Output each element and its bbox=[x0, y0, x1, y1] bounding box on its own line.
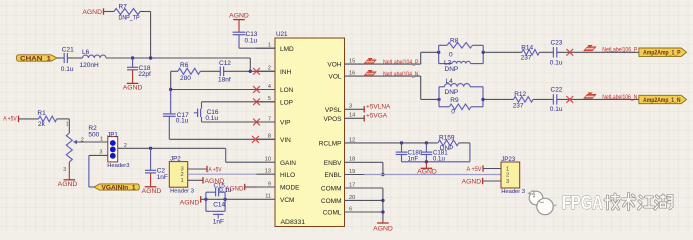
svg-text:NetLabel106_P: NetLabel106_P bbox=[602, 47, 637, 53]
pin 18 ENBV bbox=[324, 157, 364, 167]
wire JP2 pin1 bbox=[188, 179, 203, 181]
svg-text:0: 0 bbox=[449, 52, 453, 59]
pin 8 VIN bbox=[257, 134, 292, 144]
wire AGND to R7 bbox=[104, 11, 115, 13]
power A +5V JP23 bbox=[467, 165, 484, 173]
wire R1 to pot bbox=[57, 118, 70, 120]
pin 15 VOH bbox=[327, 59, 364, 69]
power A +5V JP2 bbox=[207, 166, 222, 174]
svg-text:R14: R14 bbox=[521, 44, 533, 51]
wire ENBL to JP23 bbox=[364, 174, 501, 176]
svg-text:500: 500 bbox=[88, 131, 99, 138]
capacitor C16 0.1u with loop bbox=[194, 102, 219, 122]
svg-text:3: 3 bbox=[349, 104, 352, 110]
svg-text:1: 1 bbox=[100, 137, 103, 143]
resistor R9 0 bbox=[449, 97, 471, 116]
node junction C15 left bbox=[204, 198, 207, 201]
svg-text:AGND: AGND bbox=[462, 179, 482, 186]
node junction C18 bbox=[131, 56, 134, 59]
wire C17 to VIN pin 8 bbox=[168, 116, 170, 139]
node junction C15 right bbox=[223, 198, 226, 201]
capacitor C22 0.1u bbox=[550, 87, 563, 114]
wire R159 loop bbox=[459, 142, 470, 144]
svg-text:C23: C23 bbox=[551, 40, 563, 47]
wire to R1 bbox=[19, 118, 39, 120]
svg-text:U21: U21 bbox=[276, 31, 288, 38]
no-ERC x pin5 bbox=[253, 98, 260, 105]
power AGND VCM bbox=[180, 196, 201, 206]
node junction COMM20 bbox=[381, 199, 384, 202]
wire LOP row pin 5 bbox=[202, 101, 276, 103]
svg-text:1: 1 bbox=[506, 166, 509, 172]
capacitor C12 18nf bbox=[218, 60, 231, 84]
wire to R14 bbox=[483, 51, 522, 53]
svg-text:R1: R1 bbox=[37, 110, 46, 117]
no-ERC x pin2 bbox=[253, 68, 260, 75]
wire COMM pin20 bbox=[364, 199, 383, 201]
svg-text:18nf: 18nf bbox=[218, 76, 231, 83]
svg-text:2: 2 bbox=[81, 137, 84, 143]
svg-text:0: 0 bbox=[451, 108, 455, 115]
no-ERC x N bbox=[566, 96, 573, 103]
wire wiper to JP1 bbox=[76, 141, 108, 143]
node junction R7 bbox=[149, 56, 152, 59]
svg-text:+5VGA: +5VGA bbox=[366, 113, 388, 120]
capacitor C181 0.1u bbox=[421, 143, 449, 162]
svg-text:1: 1 bbox=[268, 43, 271, 49]
wire C13 to LMD pin 1 bbox=[238, 35, 240, 49]
connector JP2 Header 3 bbox=[169, 155, 194, 194]
pin 17 COMM bbox=[321, 182, 364, 192]
pin 14 VPOS bbox=[323, 113, 364, 123]
svg-text:VIP: VIP bbox=[280, 120, 290, 127]
watermark logo bbox=[529, 191, 557, 215]
inductor L6 120nH bbox=[80, 49, 107, 69]
diff pair directive VOL bbox=[364, 72, 376, 76]
svg-text:0.1u: 0.1u bbox=[245, 37, 258, 44]
pin 16 VOL bbox=[328, 71, 364, 81]
connector JP23 Header 3 bbox=[501, 156, 525, 195]
port CHAN_1 bbox=[17, 55, 58, 63]
wire parallel block N frame bbox=[438, 87, 440, 107]
diff pair directive P bbox=[584, 47, 596, 51]
svg-text:4: 4 bbox=[268, 84, 271, 90]
capacitor C14 1nF bbox=[206, 199, 226, 225]
port Amp2Amp_1_P bbox=[639, 48, 687, 57]
wire parallel block P frame bbox=[438, 45, 440, 63]
svg-text:17: 17 bbox=[349, 182, 355, 188]
svg-text:AGND: AGND bbox=[58, 181, 78, 188]
wire R6 to C12 bbox=[200, 70, 220, 72]
svg-text:8: 8 bbox=[268, 134, 271, 140]
capacitor C23 0.1u bbox=[550, 40, 563, 67]
svg-text:1nF: 1nF bbox=[408, 155, 419, 162]
svg-text:+5VLNA: +5VLNA bbox=[366, 103, 391, 110]
wire C21 to L6 bbox=[67, 57, 82, 59]
pin 10 GAIN bbox=[257, 157, 297, 167]
svg-text:3: 3 bbox=[506, 179, 509, 185]
svg-text:C14: C14 bbox=[213, 201, 225, 208]
wire MODE bbox=[245, 186, 257, 188]
resistor R14 237 bbox=[521, 44, 540, 61]
wire JP2 pin2 HILO bbox=[188, 173, 257, 175]
svg-text:LMD: LMD bbox=[280, 46, 294, 53]
resistor R159 DNP bbox=[438, 134, 459, 152]
capacitor C180 1nF bbox=[396, 143, 423, 162]
svg-text:JP23: JP23 bbox=[501, 156, 516, 163]
svg-text:MODE: MODE bbox=[280, 185, 300, 192]
svg-text:LOP: LOP bbox=[280, 99, 293, 106]
pin 5 LOP bbox=[257, 96, 294, 106]
svg-text:2: 2 bbox=[268, 66, 271, 72]
svg-text:6: 6 bbox=[349, 206, 352, 212]
svg-text:A +5V: A +5V bbox=[209, 166, 222, 173]
power +5VGA bbox=[364, 113, 388, 122]
svg-text:DNP: DNP bbox=[445, 66, 459, 73]
svg-text:AGND: AGND bbox=[142, 188, 162, 195]
svg-text:Header3: Header3 bbox=[107, 163, 129, 169]
svg-text:A +5V: A +5V bbox=[467, 166, 483, 173]
resistor R8 0 bbox=[447, 37, 473, 58]
svg-text:AGND: AGND bbox=[180, 199, 200, 206]
wire RCLMP bbox=[364, 142, 438, 144]
svg-text:1: 1 bbox=[66, 121, 69, 127]
ground AGND under C18 bbox=[123, 70, 143, 92]
svg-text:VOH: VOH bbox=[327, 62, 341, 69]
node junction C181 bbox=[425, 141, 428, 144]
svg-text:JP1: JP1 bbox=[107, 131, 118, 138]
power +5VLNA bbox=[364, 103, 391, 112]
svg-text:12: 12 bbox=[349, 137, 355, 143]
svg-text:AD8331: AD8331 bbox=[281, 219, 306, 226]
power AGND MODE bbox=[225, 184, 244, 193]
node junction C2 bbox=[149, 147, 152, 150]
svg-text:NetLabel104_N: NetLabel104_N bbox=[383, 72, 419, 78]
svg-text:R159: R159 bbox=[439, 134, 455, 141]
svg-text:2: 2 bbox=[506, 173, 509, 179]
svg-text:280: 280 bbox=[180, 75, 191, 82]
svg-text:16: 16 bbox=[349, 71, 355, 77]
svg-text:DNP_TP: DNP_TP bbox=[119, 15, 140, 22]
svg-text:VIN: VIN bbox=[280, 137, 291, 144]
svg-text:0.1u: 0.1u bbox=[433, 155, 446, 162]
node junction INH bbox=[249, 70, 252, 73]
wire C12 to INH node bbox=[224, 70, 251, 72]
svg-text:0.1u: 0.1u bbox=[205, 115, 218, 122]
pin 13 HILO bbox=[257, 169, 296, 179]
svg-text:13: 13 bbox=[265, 169, 271, 175]
svg-text:1nF: 1nF bbox=[213, 219, 224, 226]
svg-text:FPGA: FPGA bbox=[562, 193, 603, 214]
wire main horizontal bbox=[106, 57, 250, 59]
svg-text:R12: R12 bbox=[514, 91, 526, 98]
resistor R6 280 bbox=[178, 62, 201, 82]
capacitor C21 0.1u bbox=[61, 46, 74, 73]
svg-text:VGAINIn_1: VGAINIn_1 bbox=[102, 185, 137, 191]
diff pair directive N bbox=[584, 94, 596, 98]
svg-text:237: 237 bbox=[521, 55, 532, 62]
resistor R1 2k bbox=[37, 110, 56, 128]
ground AGND comm bbox=[373, 222, 393, 233]
wire JP23 pin1 bbox=[483, 168, 501, 170]
svg-text:AGND: AGND bbox=[82, 9, 102, 16]
wire port to C21 bbox=[57, 57, 64, 59]
no-ERC x pin7 bbox=[253, 119, 260, 126]
potentiometer R2 500 bbox=[63, 121, 99, 173]
svg-text:ENBV: ENBV bbox=[324, 160, 342, 167]
wire R14 to C23 bbox=[539, 51, 553, 53]
wire R6 corner bbox=[171, 70, 178, 72]
wire COML pin6 bbox=[364, 211, 383, 213]
wire INH node to pin 2 bbox=[250, 70, 275, 72]
pin 7 VIP bbox=[257, 116, 291, 126]
svg-text:NetLabel104_P: NetLabel104_P bbox=[383, 60, 419, 66]
capacitor C13 0.1u bbox=[233, 31, 258, 44]
svg-text:DNP: DNP bbox=[445, 89, 459, 96]
svg-text:ENBL: ENBL bbox=[325, 172, 342, 179]
svg-text:L6: L6 bbox=[82, 49, 90, 56]
svg-text:CHAN_1: CHAN_1 bbox=[20, 55, 51, 62]
pin 1 LMD bbox=[257, 43, 295, 53]
wire COMM bus bbox=[364, 187, 383, 189]
ground AGND rail bbox=[417, 162, 437, 176]
svg-text:C21: C21 bbox=[62, 46, 74, 53]
svg-text:3: 3 bbox=[63, 167, 66, 173]
svg-text:R7: R7 bbox=[119, 4, 128, 11]
svg-text:NetLabel106_N: NetLabel106_N bbox=[602, 95, 637, 101]
svg-text:11: 11 bbox=[265, 194, 271, 200]
wire R7 to node bbox=[140, 11, 151, 13]
svg-text:5: 5 bbox=[268, 96, 271, 102]
svg-text:237: 237 bbox=[513, 103, 524, 110]
node junction N right bbox=[481, 98, 484, 101]
wire R12 to C22 bbox=[533, 98, 553, 100]
power A +5V left bbox=[3, 116, 18, 123]
diff pair directive VOH bbox=[364, 60, 376, 64]
no-ERC x pin4 bbox=[253, 86, 260, 93]
wire VOH to network bbox=[364, 63, 421, 65]
resistor R12 237 bbox=[513, 91, 533, 110]
pin 2 INH bbox=[257, 66, 292, 76]
pin 9 MODE bbox=[257, 181, 301, 191]
svg-text:JP2: JP2 bbox=[170, 155, 181, 162]
svg-text:20: 20 bbox=[349, 195, 355, 201]
svg-text:COMM: COMM bbox=[321, 186, 342, 193]
svg-text:R9: R9 bbox=[450, 97, 459, 104]
svg-text:22pf: 22pf bbox=[138, 71, 151, 78]
svg-text:VPSL: VPSL bbox=[325, 107, 342, 114]
wire JP2 pin3 bbox=[188, 168, 207, 170]
pin 20 COMM bbox=[321, 195, 364, 205]
node junction P right bbox=[482, 51, 485, 54]
node junction P left bbox=[437, 51, 440, 54]
connector JP1 Header3 bbox=[107, 131, 129, 169]
svg-text:14: 14 bbox=[349, 113, 355, 119]
node junction C180 bbox=[400, 141, 403, 144]
wire VCM rail bbox=[201, 198, 257, 200]
pin 11 VCM bbox=[257, 194, 295, 204]
watermark text bbox=[562, 193, 672, 214]
svg-text:INH: INH bbox=[280, 69, 292, 76]
svg-text:1: 1 bbox=[181, 178, 184, 184]
node junction COML bbox=[381, 210, 384, 213]
node junction rail bbox=[425, 160, 428, 163]
svg-text:HILO: HILO bbox=[280, 172, 295, 179]
svg-text:R6: R6 bbox=[180, 62, 189, 69]
node junction LON bbox=[169, 88, 172, 91]
wire C22 to port bbox=[557, 98, 639, 100]
svg-text:0.1u: 0.1u bbox=[176, 118, 189, 125]
capacitor C18 22pf bbox=[127, 58, 151, 78]
inductor L4 DNP bbox=[445, 78, 471, 96]
svg-text:2k: 2k bbox=[38, 121, 46, 128]
svg-text:COML: COML bbox=[323, 210, 342, 217]
capacitor C17 0.1u bbox=[163, 90, 189, 125]
resistor R7 DNP_TP bbox=[114, 4, 140, 22]
svg-text:0.1u: 0.1u bbox=[61, 66, 74, 73]
wire INH drop bbox=[249, 58, 251, 71]
svg-text:R8: R8 bbox=[450, 37, 459, 44]
svg-text:A +5V: A +5V bbox=[3, 116, 17, 123]
ground AGND pot bbox=[58, 162, 78, 188]
svg-text:AGND: AGND bbox=[373, 226, 393, 233]
svg-text:VOL: VOL bbox=[328, 74, 341, 81]
svg-text:3: 3 bbox=[99, 149, 102, 155]
svg-text:10: 10 bbox=[265, 157, 271, 163]
svg-text:15: 15 bbox=[349, 59, 355, 65]
capacitor C2 1nF bbox=[145, 148, 168, 181]
port Amp2Amp_1_N bbox=[639, 95, 687, 104]
svg-text:C22: C22 bbox=[551, 87, 563, 94]
inductor L3 DNP bbox=[444, 60, 470, 73]
no-ERC x pin8 bbox=[252, 136, 259, 143]
svg-text:AGND: AGND bbox=[123, 85, 143, 92]
svg-text:7: 7 bbox=[268, 116, 271, 122]
svg-text:1nF: 1nF bbox=[157, 174, 168, 181]
svg-text:0.1u: 0.1u bbox=[550, 106, 563, 113]
svg-text:18: 18 bbox=[349, 157, 355, 163]
svg-text:L4: L4 bbox=[446, 78, 454, 85]
pin 4 LON bbox=[257, 84, 294, 94]
svg-text:9: 9 bbox=[268, 181, 271, 187]
ground AGND above C13 bbox=[229, 13, 249, 33]
svg-text:C12: C12 bbox=[219, 60, 231, 67]
svg-text:0.1u: 0.1u bbox=[550, 60, 563, 67]
svg-text:Header 3: Header 3 bbox=[501, 189, 525, 195]
svg-text:RCLMP: RCLMP bbox=[319, 141, 342, 148]
power AGND JP23 bbox=[462, 178, 483, 186]
capacitor C15 0.1u bbox=[206, 182, 232, 199]
svg-text:Amp2Amp_1_P: Amp2Amp_1_P bbox=[643, 51, 681, 57]
svg-text:LON: LON bbox=[280, 87, 294, 94]
power AGND JP2 bbox=[203, 177, 224, 185]
node junction N left bbox=[437, 98, 440, 101]
svg-text:VCM: VCM bbox=[280, 197, 294, 204]
pin 12 RCLMP bbox=[319, 137, 364, 147]
wire C23 to port bbox=[557, 51, 639, 53]
svg-text:Amp2Amp_1_N: Amp2Amp_1_N bbox=[643, 98, 681, 104]
pin 3 VPSL bbox=[325, 104, 364, 114]
power port AGND (R7 left) bbox=[82, 8, 103, 16]
svg-text:0.1u: 0.1u bbox=[219, 187, 232, 194]
pin 6 COML bbox=[323, 206, 364, 216]
wire VIP row pin 7 bbox=[202, 121, 276, 123]
wire LON to pin 4 bbox=[171, 89, 275, 91]
port VGAINIn_1 bbox=[94, 184, 139, 192]
svg-text:Header 3: Header 3 bbox=[170, 188, 194, 194]
svg-text:AGND: AGND bbox=[229, 13, 249, 20]
pin 19 ENBL bbox=[325, 169, 365, 179]
wire ENBV bbox=[364, 161, 383, 163]
no-ERC x P bbox=[566, 49, 573, 56]
wire VOL to network bbox=[364, 75, 421, 77]
svg-text:VPOS: VPOS bbox=[323, 116, 342, 123]
node junction ENB bbox=[381, 173, 384, 176]
svg-text:120nH: 120nH bbox=[80, 62, 99, 69]
op-amp U21 AD8331 body bbox=[275, 31, 345, 226]
svg-text:GAIN: GAIN bbox=[280, 160, 296, 167]
svg-text:COMM: COMM bbox=[321, 198, 342, 205]
wire JP23 pin3 bbox=[483, 180, 501, 182]
wire to R12 bbox=[483, 98, 514, 100]
ground AGND C2 bbox=[142, 173, 162, 195]
